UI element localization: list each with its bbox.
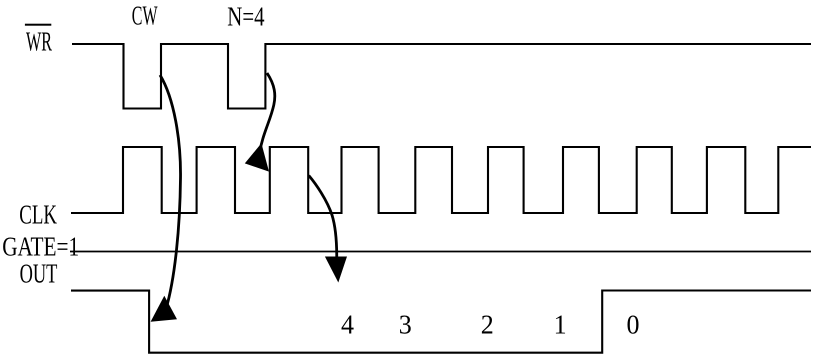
arrow from N=4 pulse to CLK	[245, 73, 275, 172]
svg-text:2: 2	[481, 310, 494, 340]
svg-text:1: 1	[554, 310, 567, 340]
svg-text:WR: WR	[26, 26, 52, 56]
svg-text:CLK: CLK	[19, 200, 57, 230]
WR waveform wire	[72, 44, 811, 109]
arrow from CLK falling edge to count start	[309, 176, 347, 283]
svg-text:CW: CW	[132, 1, 158, 31]
svg-text:N=4: N=4	[227, 2, 265, 32]
svg-text:4: 4	[341, 310, 354, 340]
arrow from CW pulse to OUT falling edge	[151, 75, 181, 322]
GATE wire	[70, 251, 811, 253]
OUT waveform wire	[71, 291, 811, 353]
svg-text:3: 3	[399, 310, 412, 340]
svg-text:GATE=1: GATE=1	[2, 231, 79, 261]
svg-text:0: 0	[627, 310, 640, 340]
signal label WR overline	[25, 24, 51, 26]
CLK waveform wire	[71, 147, 811, 213]
svg-text:OUT: OUT	[20, 259, 58, 289]
